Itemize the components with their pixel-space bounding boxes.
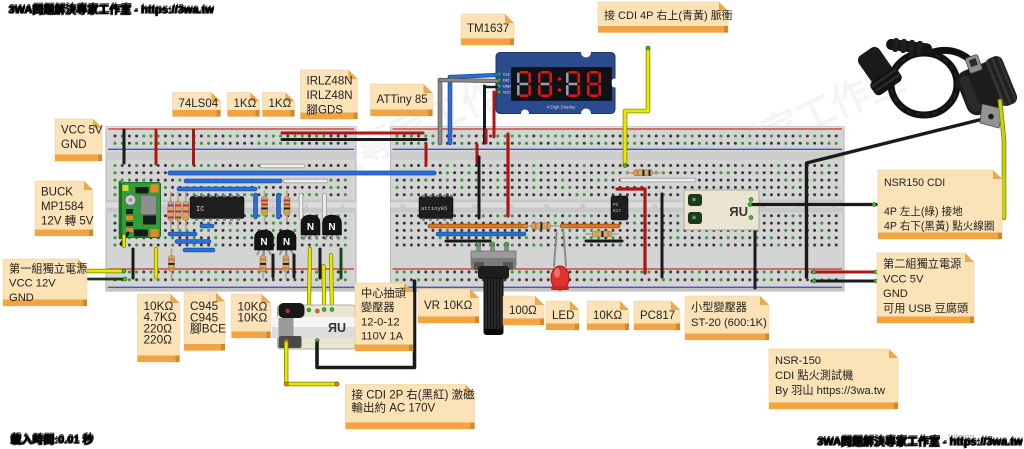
svg-text:12-0-12: 12-0-12 [361, 316, 400, 328]
svg-text:腳GDS: 腳GDS [307, 104, 344, 117]
svg-text:ЯU: ЯU [729, 204, 748, 219]
svg-text:VCC: VCC [503, 91, 511, 95]
svg-text:LED: LED [552, 310, 574, 322]
svg-text:110V 1A: 110V 1A [361, 331, 404, 343]
svg-text:第二組獨立電源: 第二組獨立電源 [883, 257, 961, 271]
svg-text:BUCK: BUCK [41, 187, 73, 199]
svg-text:ЯU: ЯU [328, 321, 346, 335]
svg-text:第一組獨立電源: 第一組獨立電源 [9, 262, 87, 276]
svg-text:GND: GND [61, 139, 87, 151]
svg-text:ST-20 (600:1K): ST-20 (600:1K) [691, 317, 767, 329]
svg-text:輸出約 AC 170V: 輸出約 AC 170V [352, 401, 436, 415]
svg-text:PC817: PC817 [640, 310, 675, 322]
svg-text:50: 50 [472, 204, 478, 210]
svg-text:VCC 12V: VCC 12V [9, 278, 56, 290]
svg-text:attiny85: attiny85 [421, 205, 447, 212]
svg-text:MP1584: MP1584 [41, 201, 84, 213]
svg-text:10: 10 [269, 204, 275, 210]
svg-text:10KΩ: 10KΩ [238, 311, 268, 325]
svg-text:VCC 5V: VCC 5V [883, 273, 924, 285]
svg-text:CLK: CLK [503, 73, 511, 77]
svg-text:DIO: DIO [503, 79, 510, 83]
svg-text:變壓器: 變壓器 [361, 300, 395, 314]
svg-text:1KΩ: 1KΩ [269, 98, 292, 110]
svg-text:IRLZ48N: IRLZ48N [307, 90, 353, 102]
svg-text:10KΩ: 10KΩ [593, 310, 622, 322]
svg-text:接 CDI 4P 右上(青黃) 脈衝: 接 CDI 4P 右上(青黃) 脈衝 [604, 8, 733, 22]
svg-text:35: 35 [580, 204, 586, 210]
svg-text:817: 817 [613, 208, 621, 214]
svg-text:60: 60 [400, 204, 406, 210]
svg-text:12V 轉 5V: 12V 轉 5V [41, 215, 94, 228]
svg-text:By 羽山 https://3wa.tw: By 羽山 https://3wa.tw [775, 384, 886, 397]
svg-text:0: 0 [341, 204, 344, 210]
svg-text:NSR150 CDI: NSR150 CDI [884, 177, 945, 189]
svg-text:小型變壓器: 小型變壓器 [691, 300, 747, 314]
svg-text:IRLZ48N: IRLZ48N [307, 76, 353, 88]
svg-text:1KΩ: 1KΩ [234, 98, 257, 110]
svg-text:25: 25 [652, 204, 658, 210]
svg-text:ATTiny 85: ATTiny 85 [377, 94, 428, 106]
svg-text:N: N [260, 237, 267, 248]
svg-text:GND: GND [883, 288, 908, 300]
svg-text:5: 5 [305, 204, 308, 210]
svg-text:VR 10KΩ: VR 10KΩ [424, 300, 473, 312]
svg-text:腳BCE: 腳BCE [190, 322, 226, 336]
svg-text:N: N [307, 222, 314, 233]
svg-text:220Ω: 220Ω [144, 333, 173, 347]
svg-text:40: 40 [544, 204, 550, 210]
svg-text:GND: GND [9, 292, 34, 304]
svg-text:接 CDI 2P 右(黑紅) 激磁: 接 CDI 2P 右(黑紅) 激磁 [352, 388, 476, 402]
svg-text:4 Digit Display: 4 Digit Display [547, 105, 577, 110]
svg-text:VCC 5V: VCC 5V [61, 125, 103, 137]
svg-text:PC: PC [613, 202, 619, 208]
svg-text:N: N [283, 237, 290, 248]
svg-text:3WA問題解決專家工作室 - https://3wa.tw: 3WA問題解決專家工作室 - https://3wa.tw [817, 434, 1023, 448]
svg-text:25: 25 [161, 204, 167, 210]
svg-text:N: N [328, 222, 335, 233]
svg-text:IC: IC [196, 206, 204, 214]
svg-text:中心抽頭: 中心抽頭 [361, 286, 406, 300]
svg-text:可用 USB 豆腐頭: 可用 USB 豆腐頭 [883, 301, 968, 315]
svg-text:載入時間:0.01 秒: 載入時間:0.01 秒 [10, 432, 93, 446]
svg-text:4P 右下(黑黃) 點火線圈: 4P 右下(黑黃) 點火線圈 [884, 220, 994, 233]
svg-text:100Ω: 100Ω [509, 305, 537, 317]
svg-text:CDI 點火測試機: CDI 點火測試機 [775, 368, 853, 382]
svg-text:74LS04: 74LS04 [179, 98, 219, 110]
svg-text:NSR-150: NSR-150 [775, 355, 821, 367]
svg-text:4P 左上(綠) 接地: 4P 左上(綠) 接地 [884, 205, 963, 218]
svg-text:3WA問題解決專家工作室 - https://3wa.tw: 3WA問題解決專家工作室 - https://3wa.tw [8, 2, 214, 16]
svg-text:GND: GND [503, 85, 511, 89]
svg-text:TM1637: TM1637 [467, 23, 509, 35]
